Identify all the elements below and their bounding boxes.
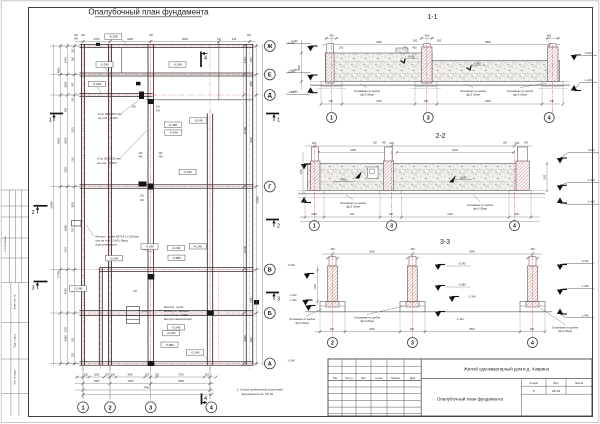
svg-text:Основание из щебня: Основание из щебня — [460, 89, 487, 93]
ledge line right of axis 3 — [146, 99, 254, 101]
section 3-3 pier axis 3 — [409, 257, 416, 267]
section 1-1 strip footing body — [326, 53, 433, 82]
svg-text:3700: 3700 — [376, 100, 382, 103]
svg-text:2420: 2420 — [369, 249, 375, 253]
svg-text:4240: 4240 — [452, 148, 458, 152]
svg-text:-0.240: -0.240 — [581, 259, 589, 263]
svg-text:400: 400 — [547, 34, 552, 38]
svg-text:4800: 4800 — [56, 67, 60, 73]
svg-text:4340: 4340 — [63, 288, 67, 294]
svg-text:2740: 2740 — [243, 57, 247, 63]
svg-text:9300: 9300 — [250, 137, 253, 143]
section 2-2 inner level marks — [355, 171, 362, 178]
extension line x219 — [218, 42, 220, 101]
svg-text:3500: 3500 — [71, 202, 74, 208]
svg-text:3540: 3540 — [469, 328, 475, 331]
wall axis Ж — [80, 44, 254, 46]
water pipe sleeve — [72, 221, 82, 227]
svg-text:на отм. -0.450: на отм. -0.450 — [97, 161, 117, 165]
svg-text:фр.5-20мм: фр.5-20мм — [346, 204, 360, 208]
svg-text:-0.400: -0.400 — [407, 56, 415, 59]
section 3-3 ground line — [305, 311, 552, 313]
svg-text:4360: 4360 — [376, 40, 382, 44]
svg-text:3740: 3740 — [447, 213, 453, 216]
section 2-2 footings — [305, 191, 324, 194]
svg-text:-1.440: -1.440 — [581, 314, 589, 318]
svg-text:400: 400 — [312, 141, 317, 145]
svg-text:2: 2 — [31, 210, 34, 216]
svg-text:2060: 2060 — [64, 167, 67, 173]
svg-text:4050: 4050 — [127, 374, 133, 377]
svg-text:640: 640 — [329, 100, 334, 103]
svg-text:фр.5-20мм: фр.5-20мм — [360, 92, 374, 96]
section 1-1 pier axis 1 — [327, 44, 334, 53]
svg-text:200: 200 — [339, 45, 344, 49]
bottom total dimension line — [83, 394, 211, 396]
svg-text:-0.240: -0.240 — [109, 35, 118, 39]
svg-text:Подпись: Подпись — [391, 377, 401, 380]
svg-text:2740: 2740 — [250, 57, 253, 63]
svg-text:400: 400 — [389, 213, 394, 216]
wall axis А — [80, 361, 254, 363]
section 1-1 left height dimension — [301, 40, 303, 90]
svg-text:400: 400 — [389, 141, 394, 145]
svg-text:200: 200 — [159, 152, 164, 155]
section 1-1 pier axis 3 — [423, 44, 430, 47]
title block stage table — [521, 379, 592, 416]
svg-text:-0.990: -0.990 — [473, 63, 481, 66]
svg-text:-0.240: -0.240 — [193, 244, 202, 248]
svg-text:400: 400 — [530, 247, 535, 251]
svg-text:Р: Р — [533, 389, 535, 393]
svg-text:Изм: Изм — [333, 377, 338, 380]
svg-text:-0.380: -0.380 — [168, 123, 177, 127]
section cut flag 3 left — [34, 281, 48, 283]
svg-text:-1.240: -1.240 — [581, 284, 589, 288]
svg-text:Листов: Листов — [575, 382, 584, 385]
section 1-1 axis circles — [327, 113, 337, 123]
svg-text:фр.5-20мм: фр.5-20мм — [513, 92, 527, 96]
svg-text:-1.440: -1.440 — [290, 89, 298, 93]
section 3-3 footing blocks — [320, 302, 345, 312]
svg-text:1500: 1500 — [94, 374, 100, 377]
section 2-2 axis circles — [309, 221, 319, 231]
title block frame — [328, 359, 592, 416]
section 2-2 bottom dimension lines — [300, 216, 540, 218]
svg-text:Стадия: Стадия — [529, 382, 538, 385]
svg-text:400: 400 — [412, 45, 417, 49]
svg-text:4: 4 — [531, 340, 534, 346]
svg-text:1080: 1080 — [250, 337, 253, 343]
svg-text:-1.200: -1.200 — [587, 178, 595, 182]
svg-text:400: 400 — [330, 328, 335, 331]
svg-text:3: 3 — [277, 297, 280, 303]
left dimension chains — [50, 44, 79, 366]
svg-text:9300: 9300 — [63, 137, 67, 143]
svg-text:на отм. -0.450: на отм. -0.450 — [98, 116, 118, 120]
svg-text:1: 1 — [330, 115, 333, 121]
section cut flag 2 left — [34, 205, 48, 207]
svg-text:2060: 2060 — [63, 81, 67, 87]
svg-text:5750: 5750 — [178, 374, 184, 377]
svg-text:4: 4 — [204, 396, 207, 402]
svg-text:Опалубочный план фундамента: Опалубочный план фундамента — [88, 8, 209, 17]
plan label leaders — [97, 39, 209, 360]
svg-text:-0.240: -0.240 — [145, 245, 154, 249]
top dimension chain — [75, 41, 256, 43]
section 1-1 pier centerlines — [331, 45, 333, 112]
svg-text:водоснабжения: водоснабжения — [96, 242, 117, 246]
svg-text:5060: 5060 — [63, 335, 67, 341]
svg-text:4: 4 — [548, 115, 551, 121]
svg-text:200: 200 — [71, 352, 74, 357]
svg-text:1900: 1900 — [94, 379, 100, 383]
svg-text:400: 400 — [156, 110, 161, 113]
svg-text:560: 560 — [71, 56, 74, 61]
section 2-2 ground line — [298, 193, 545, 195]
svg-text:Основание из щебня: Основание из щебня — [340, 201, 367, 205]
svg-text:2: 2 — [108, 405, 111, 411]
svg-text:2320: 2320 — [369, 328, 375, 331]
svg-text:400: 400 — [140, 199, 145, 202]
section 3-3 pier axis 2 — [329, 257, 336, 267]
svg-text:3140: 3140 — [64, 247, 67, 253]
svg-text:-0.240: -0.240 — [100, 63, 109, 67]
partition centerline x218 — [217, 270, 219, 364]
section 1-1 pier axis 4 — [549, 44, 556, 47]
svg-text:-0.980: -0.980 — [165, 343, 174, 347]
svg-text:КР-02: КР-02 — [552, 389, 560, 393]
svg-text:960: 960 — [64, 107, 67, 112]
svg-text:2740: 2740 — [63, 57, 67, 63]
svg-text:9300: 9300 — [56, 137, 60, 143]
svg-text:3: 3 — [31, 286, 34, 292]
section cut flag 1 left — [50, 113, 63, 115]
svg-text:400: 400 — [159, 156, 164, 159]
svg-text:2: 2 — [277, 224, 280, 230]
svg-text:5950: 5950 — [178, 379, 184, 383]
svg-text:-0.240: -0.240 — [290, 39, 298, 43]
svg-text:200: 200 — [205, 374, 210, 377]
svg-text:Основание из щебня: Основание из щебня — [467, 203, 494, 207]
svg-text:Опалубочный план фундамента: Опалубочный план фундамента — [437, 396, 504, 401]
section 1-1 ground line — [310, 84, 570, 86]
svg-text:200: 200 — [155, 374, 160, 377]
section 1-1 inner level marks — [401, 59, 406, 64]
svg-text:Основание из щебня: Основание из щебня — [354, 89, 381, 93]
svg-text:-0.240: -0.240 — [92, 82, 101, 86]
svg-text:А: А — [268, 362, 272, 368]
section 2-2 pier neck axis 1 — [311, 147, 318, 164]
axis circles letters — [264, 41, 275, 52]
svg-text:-0.240: -0.240 — [587, 148, 595, 152]
svg-text:1: 1 — [49, 118, 52, 124]
svg-text:-1.240: -1.240 — [290, 68, 298, 72]
svg-text:740: 740 — [71, 82, 74, 87]
svg-text:400: 400 — [139, 156, 144, 159]
svg-text:740: 740 — [71, 227, 74, 232]
svg-text:1860: 1860 — [311, 213, 317, 216]
svg-text:2060: 2060 — [250, 81, 253, 87]
svg-text:4180: 4180 — [350, 148, 356, 152]
svg-text:Б: Б — [268, 311, 272, 317]
partition Ж-Е at x121 — [120, 47, 122, 73]
svg-text:400: 400 — [149, 34, 154, 37]
svg-text:-0.240: -0.240 — [110, 256, 119, 260]
svg-text:31940: 31940 — [49, 201, 53, 209]
svg-text:Основание из щебня: Основание из щебня — [507, 89, 534, 93]
wall axis Г — [80, 184, 254, 186]
section 2-2 pier axis 4 — [516, 161, 530, 191]
svg-text:1: 1 — [313, 223, 316, 229]
svg-text:-1.240: -1.240 — [468, 295, 476, 299]
svg-text:Лист: Лист — [553, 382, 559, 385]
wall axis Е — [80, 72, 254, 74]
svg-text:1200: 1200 — [314, 284, 317, 290]
svg-text:Кол.уч: Кол.уч — [345, 377, 353, 380]
svg-text:-1.440: -1.440 — [587, 200, 595, 204]
section 3-3 left level flags — [304, 274, 310, 280]
svg-text:В: В — [268, 268, 272, 274]
svg-text:фр.5-20мм: фр.5-20мм — [558, 329, 572, 333]
svg-text:-0.980: -0.980 — [458, 283, 466, 287]
svg-text:1: 1 — [277, 118, 280, 124]
wall axis 1 — [81, 44, 83, 366]
section 2-2 pier neck axis 4 — [518, 147, 528, 164]
section 3-3 right level flags — [557, 265, 563, 271]
svg-text:-0.240: -0.240 — [74, 287, 83, 291]
section 2-2 inner table detail — [368, 167, 378, 178]
section 2-2 strip footing body — [308, 164, 530, 191]
wall left lower — [98, 268, 100, 366]
svg-text:-0.240: -0.240 — [173, 63, 182, 67]
section 2-2 pier axis 1 — [311, 161, 321, 191]
svg-text:-0.990: -0.990 — [459, 177, 467, 180]
section 2-2 top dimension line — [305, 145, 532, 147]
svg-text:400: 400 — [530, 328, 535, 331]
section cut flag 3 right — [266, 292, 279, 294]
svg-text:640: 640 — [424, 100, 429, 103]
section 2-2 pier neck axis 3 — [385, 147, 393, 164]
svg-text:-0.240: -0.240 — [172, 246, 181, 250]
svg-text:400: 400 — [410, 247, 415, 251]
plan axis extension grid — [60, 44, 265, 401]
svg-text:3640: 3640 — [469, 249, 475, 253]
svg-text:1500: 1500 — [64, 327, 67, 333]
svg-text:2320: 2320 — [71, 127, 74, 133]
svg-text:200: 200 — [111, 374, 116, 377]
svg-text:-0.240: -0.240 — [584, 51, 592, 55]
title block left table — [328, 359, 421, 416]
svg-text:180: 180 — [71, 337, 74, 342]
section 3-3 bottom dimension line — [315, 331, 545, 333]
svg-text:1: 1 — [81, 405, 84, 411]
svg-text:2-2: 2-2 — [435, 133, 445, 140]
section 2-2 left level flags — [301, 164, 307, 170]
svg-text:фр.5-20мм: фр.5-20мм — [466, 92, 480, 96]
svg-text:Дата: Дата — [410, 377, 416, 380]
wall axis 2 — [108, 44, 110, 366]
svg-text:200: 200 — [145, 374, 150, 377]
svg-text:-0.240: -0.240 — [288, 358, 296, 362]
bottom dimension chains — [75, 366, 214, 399]
svg-text:-0.240: -0.240 — [172, 325, 181, 329]
svg-text:3: 3 — [427, 115, 430, 121]
wall openings (black) — [96, 43, 259, 366]
section 1-1 top dimension line — [322, 44, 560, 46]
svg-text:№ док.: № док. — [375, 377, 383, 380]
svg-text:4: 4 — [204, 56, 207, 62]
svg-text:200: 200 — [413, 38, 418, 42]
svg-text:4800: 4800 — [485, 100, 491, 103]
svg-text:200: 200 — [84, 374, 89, 377]
svg-text:6640: 6640 — [182, 37, 188, 41]
svg-text:Ж: Ж — [266, 44, 273, 50]
section 3-3 mid level flags — [435, 265, 441, 271]
svg-text:-0.240: -0.240 — [167, 331, 176, 335]
svg-text:Согласовано: Согласовано — [3, 236, 7, 252]
svg-text:фундамента см. КР-03: фундамента см. КР-03 — [242, 392, 274, 396]
section 1-1 bottom dimension line — [322, 103, 560, 105]
svg-text:400: 400 — [247, 34, 252, 37]
svg-text:-1.440: -1.440 — [289, 299, 297, 302]
wall axis Б — [80, 310, 254, 312]
svg-text:2320: 2320 — [250, 297, 253, 303]
svg-text:17760: 17760 — [56, 271, 60, 279]
svg-text:400: 400 — [410, 328, 415, 331]
svg-text:Основание из щебня: Основание из щебня — [289, 317, 316, 321]
section 2-2 right height dimension — [546, 164, 548, 192]
svg-text:Д: Д — [268, 93, 272, 99]
svg-text:фр.5-20мм: фр.5-20мм — [295, 321, 309, 325]
section 1-1 left level flags — [307, 46, 313, 52]
wall axis 3 — [147, 44, 149, 366]
svg-text:180: 180 — [71, 97, 74, 102]
svg-text:Основание из щебня: Основание из щебня — [354, 316, 381, 320]
svg-text:180: 180 — [71, 48, 74, 53]
svg-text:-0.240: -0.240 — [194, 119, 203, 123]
section 1-1 top step detail — [396, 48, 408, 53]
svg-text:200: 200 — [437, 38, 442, 42]
svg-text:-0.240: -0.240 — [169, 131, 178, 135]
svg-text:Е: Е — [268, 73, 272, 79]
svg-text:-0.980: -0.980 — [172, 256, 181, 260]
svg-text:400: 400 — [425, 34, 430, 38]
svg-text:700: 700 — [133, 290, 138, 293]
section 3-3 axis circles — [328, 338, 338, 348]
svg-text:3: 3 — [411, 340, 414, 346]
svg-text:400: 400 — [515, 213, 520, 216]
plan level labels — [105, 34, 122, 39]
section cut flag 4 bottom — [201, 394, 203, 405]
section 2-2 right level flags — [557, 158, 563, 164]
svg-text:2700: 2700 — [94, 37, 100, 41]
svg-text:400: 400 — [330, 247, 335, 251]
svg-text:1160: 1160 — [71, 157, 74, 163]
section 2-2 pier axis 3 — [384, 161, 394, 191]
svg-text:400: 400 — [81, 34, 86, 37]
svg-text:4450: 4450 — [128, 379, 134, 383]
svg-text:4060: 4060 — [127, 37, 133, 41]
section 2-2 pier centerlines — [313, 150, 315, 221]
svg-text:4840: 4840 — [485, 40, 491, 44]
svg-text:3: 3 — [390, 223, 393, 229]
svg-text:Основание из щебня: Основание из щебня — [552, 326, 579, 330]
svg-text:-1.440: -1.440 — [584, 78, 592, 82]
svg-text:3000: 3000 — [298, 65, 301, 71]
svg-text:31940: 31940 — [255, 196, 259, 204]
svg-text:400: 400 — [515, 141, 520, 145]
svg-text:3: 3 — [149, 405, 152, 411]
svg-text:Жилой одноквартирный дом в д.: Жилой одноквартирный дом в д. Ховрино — [464, 367, 550, 372]
section 3-3 top dimension line — [322, 253, 542, 255]
svg-text:1-1: 1-1 — [427, 14, 437, 21]
svg-text:640: 640 — [550, 100, 555, 103]
svg-text:3-3: 3-3 — [440, 239, 450, 246]
svg-text:фр.5-20мм: фр.5-20мм — [473, 206, 487, 210]
svg-text:-0.240: -0.240 — [458, 262, 466, 266]
svg-text:Подп. и дата: Подп. и дата — [14, 333, 17, 348]
svg-text:2: 2 — [331, 340, 334, 346]
svg-text:-0.240: -0.240 — [191, 351, 200, 355]
svg-text:11360: 11360 — [243, 126, 247, 134]
svg-text:-0.240: -0.240 — [288, 263, 296, 267]
svg-text:-1.240: -1.240 — [289, 294, 297, 297]
svg-text:200: 200 — [132, 106, 137, 109]
svg-text:-0.240: -0.240 — [183, 170, 192, 174]
side column table — [1, 190, 28, 416]
svg-text:1450: 1450 — [300, 169, 303, 175]
svg-text:100: 100 — [350, 213, 355, 216]
svg-text:4: 4 — [513, 223, 516, 229]
wall right outer — [245, 44, 247, 366]
svg-text:Инв. № подл.: Инв. № подл. — [14, 369, 17, 384]
svg-text:200: 200 — [140, 195, 145, 198]
section 3-3 pier centerlines — [332, 256, 334, 338]
right dimension chains — [244, 44, 263, 366]
svg-text:фр.5-20мм: фр.5-20мм — [360, 319, 374, 323]
svg-text:8360: 8360 — [63, 225, 67, 231]
svg-text:7440: 7440 — [143, 386, 150, 390]
svg-text:Лист: Лист — [361, 377, 367, 380]
section 1-1 footings — [321, 82, 342, 87]
axis circles numbers — [78, 402, 89, 413]
svg-text:-1.440: -1.440 — [456, 317, 464, 321]
svg-text:12700: 12700 — [243, 246, 247, 254]
section cut flag 2 right — [266, 219, 279, 221]
svg-text:200: 200 — [156, 106, 161, 109]
section cut flag 1 right — [266, 113, 279, 115]
wall axis 4 — [206, 114, 208, 366]
svg-text:Выпуск канализации: Выпуск канализации — [164, 317, 192, 321]
svg-text:5060: 5060 — [243, 335, 247, 341]
section 1-1 right level flags — [571, 55, 577, 61]
svg-text:1. Схема щебеночной подготовк: 1. Схема щебеночной подготовки — [237, 388, 284, 392]
svg-text:1200: 1200 — [544, 174, 547, 180]
section 3-3 left height dimension — [317, 266, 319, 305]
section cut flag 4 top — [200, 52, 202, 68]
svg-text:200: 200 — [139, 152, 144, 155]
sewer pipe sleeve — [127, 307, 140, 324]
svg-text:200: 200 — [105, 374, 110, 377]
svg-text:Взам. инв. №: Взам. инв. № — [14, 294, 17, 309]
svg-text:-0.400: -0.400 — [339, 178, 347, 182]
wall axis Д — [80, 93, 153, 95]
section 3-3 pier axis 4 — [529, 257, 536, 267]
svg-text:400: 400 — [329, 34, 334, 38]
svg-text:440: 440 — [232, 37, 237, 41]
wall axis В — [99, 267, 253, 269]
